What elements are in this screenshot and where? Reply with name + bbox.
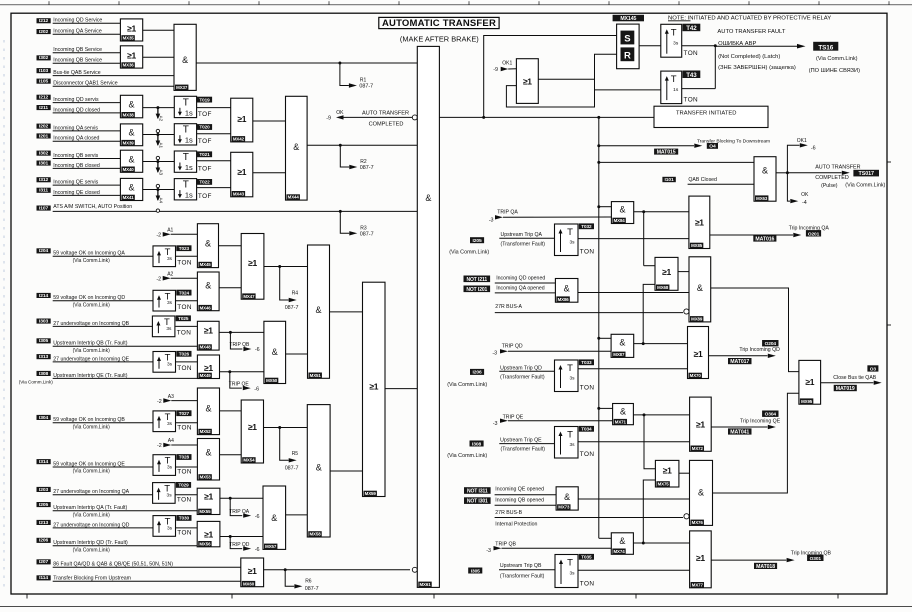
svg-text:MX47: MX47 bbox=[243, 294, 255, 299]
svg-text:MX76: MX76 bbox=[692, 520, 704, 525]
svg-text:I204: I204 bbox=[39, 248, 48, 254]
svg-text:&: & bbox=[620, 205, 626, 215]
svg-text:I314: I314 bbox=[39, 459, 48, 465]
svg-text:I308: I308 bbox=[472, 441, 481, 447]
svg-text:27R BUS-A: 27R BUS-A bbox=[495, 304, 522, 310]
svg-text:I212: I212 bbox=[39, 18, 48, 24]
svg-text:&: & bbox=[129, 183, 135, 193]
svg-text:-2: -2 bbox=[156, 276, 161, 282]
svg-text:T024: T024 bbox=[179, 290, 190, 295]
svg-text:MX61: MX61 bbox=[419, 582, 431, 587]
svg-text:ОШИБКА АВР: ОШИБКА АВР bbox=[718, 41, 756, 47]
svg-text:TRIP QE: TRIP QE bbox=[503, 415, 524, 421]
input I206 Upstream Trip QD bbox=[470, 369, 484, 375]
page border frame bbox=[0, 4, 912, 6]
svg-text:NOT I311: NOT I311 bbox=[467, 489, 488, 495]
and-gate MX71 bbox=[597, 407, 600, 410]
svg-text:T033: T033 bbox=[581, 360, 592, 365]
svg-text:≥1: ≥1 bbox=[237, 167, 246, 177]
svg-text:T035: T035 bbox=[581, 555, 592, 560]
svg-text:T020: T020 bbox=[199, 125, 210, 130]
and-gate MX84 bbox=[597, 205, 600, 208]
input I101 QAB Closed bbox=[662, 177, 675, 182]
svg-text:T021: T021 bbox=[199, 152, 210, 157]
svg-text:087-7: 087-7 bbox=[360, 231, 374, 237]
ton-timer T024 bbox=[153, 290, 176, 311]
input I305 Upstream Intertrip QB (Tr. Fault) bbox=[37, 338, 51, 343]
svg-text:(Via Comm.Link): (Via Comm.Link) bbox=[449, 249, 489, 255]
svg-text:087-7: 087-7 bbox=[359, 84, 373, 90]
svg-text:&: & bbox=[698, 488, 704, 498]
MX85 output to O201 Trip Incoming QA bbox=[710, 234, 793, 236]
svg-text:AUTO TRANSFER: AUTO TRANSFER bbox=[815, 165, 860, 171]
input I313 27 undervoltage on Incoming QE bbox=[37, 354, 51, 359]
and-gate MX63 bbox=[754, 157, 776, 202]
svg-text:&: & bbox=[315, 305, 321, 315]
svg-text:&: & bbox=[205, 404, 211, 414]
svg-text:TON: TON bbox=[177, 496, 192, 503]
svg-text:TON: TON bbox=[177, 468, 192, 475]
svg-text:I107: I107 bbox=[39, 205, 48, 211]
ton-timer T026 bbox=[153, 352, 176, 373]
svg-text:MX87: MX87 bbox=[613, 352, 625, 357]
svg-text:&: & bbox=[205, 239, 211, 249]
svg-text:ATS A/M SWITCH, AUTO Position: ATS A/M SWITCH, AUTO Position bbox=[53, 204, 132, 210]
or-gate MX36 bbox=[143, 56, 174, 58]
svg-text:TRIP QA: TRIP QA bbox=[229, 509, 250, 515]
svg-text:-3: -3 bbox=[492, 351, 497, 357]
svg-text:&: & bbox=[205, 281, 211, 291]
input I202 Incoming QA Service bbox=[37, 29, 51, 34]
svg-text:I303: I303 bbox=[39, 318, 48, 324]
svg-text:3s: 3s bbox=[569, 239, 575, 245]
svg-text:MX86: MX86 bbox=[558, 297, 570, 302]
ton-timer T43 bbox=[661, 71, 682, 104]
svg-text:(Via Comm.Link): (Via Comm.Link) bbox=[73, 348, 110, 354]
input I211 Incoming QD closed bbox=[37, 105, 51, 110]
svg-text:TOF: TOF bbox=[198, 166, 212, 173]
svg-text:3s: 3s bbox=[167, 421, 173, 427]
input I212 Incoming QD Service bbox=[37, 18, 51, 23]
and-gate MX52 bbox=[220, 410, 242, 412]
svg-text:MAT019: MAT019 bbox=[836, 386, 855, 392]
svg-text:&: & bbox=[620, 407, 626, 417]
or-gate MX54 bbox=[241, 400, 263, 463]
svg-text:&: & bbox=[564, 284, 570, 294]
input I105 Disconnector QAB1 Service bbox=[37, 79, 51, 84]
svg-text:MX73: MX73 bbox=[558, 505, 570, 510]
input I302 Incoming QB servis bbox=[37, 151, 51, 156]
svg-text:T: T bbox=[567, 363, 573, 374]
svg-text:-4: -4 bbox=[802, 200, 807, 206]
svg-text:(Transformer Fault): (Transformer Fault) bbox=[500, 375, 545, 381]
and-gate MX50 bbox=[286, 353, 308, 355]
svg-text:R: R bbox=[624, 50, 631, 61]
svg-text:TON: TON bbox=[684, 50, 699, 57]
input I305 Upstream Trip QB bbox=[468, 568, 482, 574]
svg-text:OK: OK bbox=[336, 110, 344, 116]
svg-text:TON: TON bbox=[580, 451, 595, 458]
svg-text:I305: I305 bbox=[471, 568, 480, 574]
svg-text:R1: R1 bbox=[360, 78, 367, 84]
svg-text:TRIP QE: TRIP QE bbox=[229, 381, 250, 387]
svg-text:I302: I302 bbox=[39, 151, 48, 157]
svg-text:Upstream Trip QD: Upstream Trip QD bbox=[500, 365, 542, 371]
svg-text:MX63: MX63 bbox=[756, 196, 768, 201]
svg-text:MX37: MX37 bbox=[176, 85, 188, 90]
svg-text:MX45: MX45 bbox=[200, 262, 212, 267]
svg-text:TOF: TOF bbox=[198, 138, 212, 145]
or-gate MX47 bbox=[241, 234, 264, 300]
svg-text:(ПО ШИНЕ СВЯЗИ): (ПО ШИНЕ СВЯЗИ) bbox=[809, 68, 860, 74]
svg-text:(Via Comm.Link): (Via Comm.Link) bbox=[19, 380, 54, 385]
input I207 86 Fault QA/QD & QAB & QB/QE bbox=[37, 559, 51, 564]
svg-text:I213: I213 bbox=[39, 520, 48, 526]
svg-text:&: & bbox=[425, 193, 431, 203]
svg-text:I203: I203 bbox=[39, 487, 48, 493]
svg-text:T42: T42 bbox=[686, 25, 697, 32]
svg-text:NOT I301: NOT I301 bbox=[467, 499, 488, 505]
svg-text:MX41: MX41 bbox=[123, 195, 135, 200]
svg-text:3s: 3s bbox=[167, 300, 173, 306]
svg-text:R5: R5 bbox=[292, 451, 299, 457]
input I107 ATS A/M SWITCH AUTO Position bbox=[37, 206, 51, 211]
svg-text:Upstream Trip QE: Upstream Trip QE bbox=[500, 438, 542, 444]
svg-text:(Transformer Fault): (Transformer Fault) bbox=[501, 447, 546, 453]
svg-text:&: & bbox=[129, 155, 135, 165]
MX76 output to final OR bbox=[713, 393, 799, 493]
and-gate MX40 bbox=[143, 161, 175, 163]
svg-text:AUTO TRANSFER: AUTO TRANSFER bbox=[362, 110, 409, 116]
tof-timer T020 bbox=[174, 124, 196, 145]
svg-text:3s: 3s bbox=[673, 40, 679, 46]
or-gate MX70 bbox=[688, 327, 709, 379]
svg-text:T022: T022 bbox=[199, 180, 210, 185]
svg-text:-2: -2 bbox=[157, 399, 162, 405]
or-gate MX42 bbox=[253, 120, 286, 122]
svg-text:A1: A1 bbox=[159, 143, 164, 149]
svg-text:-6: -6 bbox=[255, 514, 260, 520]
svg-text:MX85: MX85 bbox=[691, 243, 703, 248]
svg-text:&: & bbox=[272, 347, 278, 357]
ton-timer T033 bbox=[555, 360, 579, 392]
TRANSFER INITIATED box bbox=[654, 106, 768, 127]
svg-text:T: T bbox=[567, 558, 573, 569]
MX71 output junction bbox=[633, 414, 689, 416]
and-gate MX39 bbox=[143, 134, 175, 136]
MX89 output to final OR bbox=[711, 288, 799, 372]
and-gate MX58 (tall) bbox=[307, 405, 330, 537]
svg-text:1s: 1s bbox=[673, 87, 679, 93]
svg-text:≥1: ≥1 bbox=[696, 553, 705, 563]
svg-text:Upstream Trip QB: Upstream Trip QB bbox=[500, 563, 542, 569]
svg-text:-9: -9 bbox=[493, 67, 498, 73]
svg-text:≥1: ≥1 bbox=[662, 267, 671, 277]
svg-text:&: & bbox=[697, 283, 703, 293]
svg-text:Incoming QE opened: Incoming QE opened bbox=[495, 486, 544, 492]
tof-timer T021 bbox=[174, 151, 196, 172]
svg-text:AUTO TRANSFER FAULT: AUTO TRANSFER FAULT bbox=[717, 29, 785, 35]
and-gate MX89 bbox=[689, 257, 711, 322]
svg-text:(Transformer Fault): (Transformer Fault) bbox=[500, 574, 545, 580]
svg-text:MAT017: MAT017 bbox=[730, 359, 749, 365]
wire MX61 output net to S latch and TRANSFER INITIATED bbox=[439, 116, 654, 118]
svg-text:Close Bus tie QAB: Close Bus tie QAB bbox=[833, 375, 876, 381]
svg-text:TON: TON bbox=[580, 581, 595, 588]
svg-text:(MAKE AFTER BRAKE): (MAKE AFTER BRAKE) bbox=[400, 35, 479, 44]
svg-text:≥1: ≥1 bbox=[805, 377, 814, 387]
svg-text:TRIP QD: TRIP QD bbox=[229, 542, 250, 548]
input I314 59 voltage OK on Incoming QE bbox=[37, 459, 51, 464]
svg-text:OK: OK bbox=[801, 192, 809, 198]
svg-text:-6: -6 bbox=[255, 547, 260, 553]
svg-text:≥1: ≥1 bbox=[127, 50, 136, 60]
or-gate MX72 bbox=[690, 397, 712, 451]
svg-text:I202: I202 bbox=[39, 124, 48, 130]
svg-text:MX145: MX145 bbox=[620, 16, 636, 22]
svg-text:T029: T029 bbox=[178, 483, 189, 488]
svg-text:MX43: MX43 bbox=[233, 191, 245, 196]
input I301 Incoming QB closed bbox=[37, 161, 51, 166]
S-R latch MX145 bbox=[613, 15, 644, 21]
svg-text:MX56: MX56 bbox=[199, 541, 211, 546]
input I202 Incoming QA servis bbox=[37, 124, 51, 129]
svg-text:Incoming QA opened: Incoming QA opened bbox=[496, 286, 545, 292]
svg-text:-2: -2 bbox=[157, 443, 162, 449]
input I214 59 voltage OK on Incoming QD bbox=[37, 293, 51, 298]
and-gate MX38 bbox=[143, 107, 175, 109]
and-gate MX73 bbox=[556, 487, 578, 510]
svg-text:I212: I212 bbox=[39, 95, 48, 101]
svg-text:I301: I301 bbox=[39, 160, 48, 166]
svg-text:MX38: MX38 bbox=[123, 112, 135, 117]
svg-text:3s: 3s bbox=[569, 442, 575, 448]
svg-text:≥1: ≥1 bbox=[204, 529, 213, 539]
or-gate MX43 bbox=[253, 172, 286, 174]
MX77 output to O301 Trip Incoming QB bbox=[711, 559, 786, 561]
ton-timer T029 bbox=[153, 483, 176, 504]
svg-text:I214: I214 bbox=[39, 293, 48, 299]
svg-text:≥1: ≥1 bbox=[663, 465, 672, 475]
svg-text:≥1: ≥1 bbox=[204, 363, 213, 373]
svg-text:I305: I305 bbox=[39, 338, 48, 344]
svg-text:≥1: ≥1 bbox=[248, 258, 257, 268]
svg-text:3s: 3s bbox=[569, 571, 575, 577]
svg-text:A2: A2 bbox=[167, 271, 173, 277]
input NOT I311 Incoming QE opened bbox=[464, 487, 491, 494]
svg-text:I311: I311 bbox=[39, 188, 48, 194]
input I212 Incoming QD servis bbox=[37, 95, 51, 100]
svg-text:1s: 1s bbox=[185, 136, 193, 145]
svg-text:NOTE: INITIATED AND ACTUATED B: NOTE: INITIATED AND ACTUATED BY PROTECTI… bbox=[668, 15, 831, 21]
tof-timer T022 bbox=[174, 179, 196, 200]
ton-timer T42 bbox=[661, 24, 682, 57]
svg-text:MX95: MX95 bbox=[801, 399, 813, 404]
svg-text:MX46: MX46 bbox=[200, 305, 212, 310]
svg-text:MX68: MX68 bbox=[657, 285, 669, 290]
svg-text:(Via Comm.Link): (Via Comm.Link) bbox=[845, 183, 885, 189]
svg-text:≥1: ≥1 bbox=[369, 381, 378, 391]
svg-text:O304: O304 bbox=[765, 412, 777, 418]
TRIP QB tap bbox=[229, 331, 232, 334]
svg-text:3s: 3s bbox=[167, 525, 173, 531]
and-gate MX41 bbox=[143, 189, 175, 191]
svg-text:≥1: ≥1 bbox=[695, 217, 704, 227]
svg-text:≥1: ≥1 bbox=[523, 76, 532, 86]
title AUTOMATIC TRANSFER bbox=[379, 17, 499, 28]
svg-text:O3: O3 bbox=[870, 366, 877, 372]
ton-timer T025 bbox=[152, 316, 175, 337]
svg-text:MX39: MX39 bbox=[123, 140, 135, 145]
svg-text:(Not Completed) (Latch): (Not Completed) (Latch) bbox=[718, 54, 780, 60]
ton-timer T032 bbox=[555, 224, 579, 256]
svg-text:MX49: MX49 bbox=[200, 373, 212, 378]
svg-text:A4: A4 bbox=[168, 438, 174, 444]
wire latch output to T42 bbox=[639, 45, 661, 47]
svg-text:≥1: ≥1 bbox=[237, 114, 246, 124]
svg-text:T025: T025 bbox=[178, 316, 189, 321]
and-gate MX44 bbox=[286, 96, 308, 200]
svg-text:≥1: ≥1 bbox=[248, 422, 257, 432]
svg-text:O4: O4 bbox=[709, 144, 716, 150]
svg-text:087-7: 087-7 bbox=[285, 465, 299, 471]
MX72 output to O304 Trip Incoming QE bbox=[711, 426, 767, 428]
svg-text:27 undervoltage on Incoming QD: 27 undervoltage on Incoming QD bbox=[53, 522, 129, 528]
svg-text:COMPLETED: COMPLETED bbox=[369, 122, 404, 128]
TRIP QD tap bbox=[229, 535, 232, 538]
svg-text:MX44: MX44 bbox=[288, 195, 300, 200]
svg-text:T: T bbox=[671, 27, 677, 38]
svg-text:T: T bbox=[671, 74, 677, 85]
R5 tap to 087-7 bbox=[264, 427, 308, 429]
input I311 Incoming QE closed bbox=[37, 188, 51, 193]
R3 tap to 087-7 bbox=[339, 210, 342, 213]
svg-text:(Pulse): (Pulse) bbox=[821, 183, 838, 189]
input I308 Upstream Trip QE bbox=[470, 441, 484, 447]
svg-text:TON: TON bbox=[177, 304, 192, 311]
ton-timer T035 bbox=[555, 555, 578, 588]
svg-text:MX48: MX48 bbox=[200, 345, 212, 350]
or-gate QK1 feedback bbox=[516, 59, 538, 104]
svg-text:MAT015: MAT015 bbox=[657, 149, 676, 155]
tof-timer T019 bbox=[174, 96, 196, 117]
or-gate MX35 bbox=[143, 29, 174, 31]
svg-text:(Via Comm.Link): (Via Comm.Link) bbox=[73, 302, 110, 308]
svg-text:MX77: MX77 bbox=[692, 582, 704, 587]
svg-text:TS017: TS017 bbox=[859, 171, 874, 177]
ton-timer T028 bbox=[153, 455, 176, 476]
svg-text:I202: I202 bbox=[39, 29, 48, 35]
input I303 27 undervoltage on Incoming QB bbox=[37, 319, 51, 324]
svg-text:(Via Comm.Link): (Via Comm.Link) bbox=[73, 512, 110, 518]
svg-text:3s: 3s bbox=[166, 326, 172, 332]
svg-text:T028: T028 bbox=[179, 455, 190, 460]
svg-text:T032: T032 bbox=[581, 224, 592, 229]
input I312 Incoming QE servis bbox=[37, 177, 51, 182]
svg-text:&: & bbox=[205, 448, 211, 458]
svg-text:3s: 3s bbox=[167, 361, 173, 367]
svg-text:-3: -3 bbox=[493, 421, 498, 427]
or-gate MX95 final close bus-tie bbox=[799, 360, 821, 404]
or-gate MX56 bbox=[220, 536, 263, 538]
svg-text:T027: T027 bbox=[179, 411, 190, 416]
svg-text:OK1: OK1 bbox=[502, 60, 512, 66]
svg-text:≥1: ≥1 bbox=[248, 566, 257, 576]
svg-text:1s: 1s bbox=[185, 191, 193, 200]
svg-text:MX72: MX72 bbox=[692, 446, 704, 451]
svg-text:OK1: OK1 bbox=[797, 138, 807, 144]
svg-text:MX74: MX74 bbox=[613, 549, 625, 554]
svg-text:T019: T019 bbox=[199, 97, 210, 102]
svg-text:I312: I312 bbox=[39, 177, 48, 183]
svg-text:TON: TON bbox=[177, 425, 192, 432]
MX63 output: OK1 arrow, TS017 pulse, OK arrow bbox=[776, 172, 787, 174]
svg-text:MX59: MX59 bbox=[365, 491, 377, 496]
svg-text:MX52: MX52 bbox=[200, 429, 212, 434]
svg-text:MX53: MX53 bbox=[200, 475, 212, 480]
svg-text:MAT018: MAT018 bbox=[756, 564, 775, 570]
MX84 output junction bbox=[634, 211, 689, 213]
svg-text:TRIP QD: TRIP QD bbox=[502, 343, 523, 349]
svg-text:&: & bbox=[129, 100, 135, 110]
svg-text:3s: 3s bbox=[167, 465, 173, 471]
svg-text:Trip Incoming QD: Trip Incoming QD bbox=[739, 347, 780, 353]
svg-text:(Via Comm.Link): (Via Comm.Link) bbox=[73, 547, 110, 553]
svg-text:A4: A4 bbox=[159, 198, 164, 204]
svg-text:NOT I211: NOT I211 bbox=[466, 277, 487, 283]
wire trip-bus taps: O4 arrow bbox=[597, 144, 600, 147]
svg-text:27R BUS-B: 27R BUS-B bbox=[495, 510, 522, 516]
svg-text:I206: I206 bbox=[39, 538, 48, 544]
wire vertical trip-feed bus x=598.8 bbox=[598, 117, 600, 538]
svg-text:I105: I105 bbox=[39, 79, 48, 85]
svg-text:&: & bbox=[619, 337, 625, 347]
svg-text:A1: A1 bbox=[167, 228, 173, 234]
svg-text:MX51: MX51 bbox=[310, 373, 322, 378]
R2 tap to 087-7 bbox=[339, 144, 342, 147]
and-gate MX61 (very tall) bbox=[417, 46, 439, 587]
svg-text:T: T bbox=[183, 152, 189, 163]
and-gate MX76 bbox=[690, 460, 713, 525]
svg-text:TRIP QB: TRIP QB bbox=[229, 342, 250, 348]
svg-text:I201: I201 bbox=[39, 133, 48, 139]
svg-text:&: & bbox=[619, 536, 625, 546]
wire MX37 output to MX61 bbox=[196, 62, 417, 64]
wire T021 T022 to MX43 bbox=[197, 160, 231, 162]
svg-text:≥1: ≥1 bbox=[696, 419, 705, 429]
svg-text:087-7: 087-7 bbox=[360, 165, 374, 171]
svg-text:I207: I207 bbox=[39, 559, 48, 565]
svg-text:A3: A3 bbox=[168, 394, 174, 400]
svg-text:3s: 3s bbox=[167, 492, 173, 498]
and-gate MX46 bbox=[219, 287, 241, 289]
svg-text:A3: A3 bbox=[159, 170, 164, 176]
svg-text:I114: I114 bbox=[39, 575, 48, 581]
svg-text:MX71: MX71 bbox=[615, 419, 627, 424]
svg-text:TOF: TOF bbox=[198, 193, 212, 200]
svg-text:Trip Incoming QE: Trip Incoming QE bbox=[740, 418, 781, 424]
input NOT I211 Incoming QD opened bbox=[464, 276, 491, 283]
svg-text:&: & bbox=[271, 513, 277, 523]
wire T019 T020 to MX42 bbox=[197, 107, 231, 109]
svg-text:&: & bbox=[129, 128, 135, 138]
svg-text:MAT041: MAT041 bbox=[730, 429, 749, 435]
or-gate MX85 bbox=[689, 196, 710, 248]
svg-text:Incoming QD opened: Incoming QD opened bbox=[496, 276, 545, 282]
svg-text:1s: 1s bbox=[185, 163, 193, 172]
input I114 Transfer Blocking From Upstream bbox=[37, 575, 51, 580]
svg-text:QAB Closed: QAB Closed bbox=[688, 177, 717, 183]
